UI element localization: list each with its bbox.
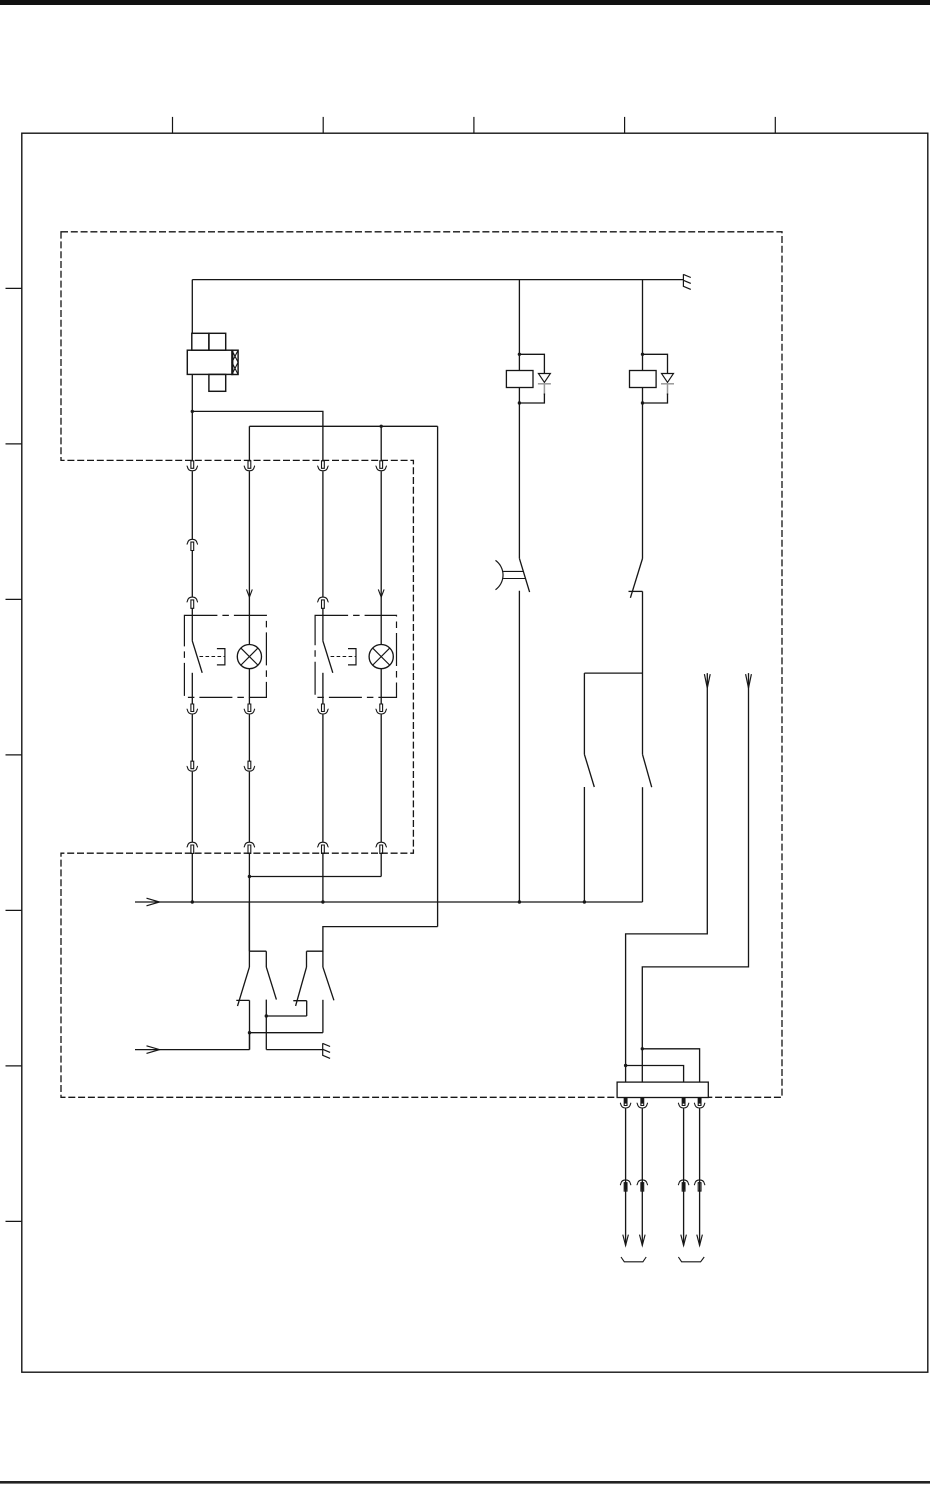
- node: lower bus tap on main bus: [322, 926, 324, 928]
- connector C6-3 (lower boundary, wire 3): [317, 842, 328, 853]
- destination bracket (pair 3-4): [678, 1257, 704, 1262]
- wire: SW-A to main bus: [583, 787, 585, 902]
- dimmer switch: left rocker bar: [249, 902, 266, 967]
- connector pin C1-3 (boundary, wire 3): [317, 461, 328, 471]
- bulb RH (lamp): [369, 645, 393, 669]
- wire 2: to lower boundary connector: [248, 772, 250, 843]
- wire: R1 diode branch (top): [519, 354, 544, 373]
- arrow: wire B direction: [746, 674, 752, 688]
- connector pin C5-2 (mid, wire 2): [244, 761, 255, 771]
- link bracket RH: [348, 649, 356, 665]
- wire 3: to lower boundary connector: [322, 715, 324, 843]
- wire: R2 diode branch (bottom): [643, 394, 668, 404]
- arrow: J1-1 lead end: [623, 1235, 629, 1246]
- wire 4: lamp to below-box connector: [380, 669, 382, 704]
- connector C6-2 (lower boundary, wire 2): [244, 842, 255, 853]
- wire 4: to lower boundary connector: [380, 715, 382, 843]
- wire 2: down to dimmer switch: [248, 853, 250, 951]
- node: wire 1 on main bus: [191, 900, 194, 903]
- wire: R1 contact to main bus: [518, 591, 520, 902]
- MAIN CIRCUIT: [184, 274, 690, 951]
- mechanical link RH (dashed): [331, 656, 357, 658]
- connector C6-4 (lower boundary, wire 4): [376, 842, 387, 853]
- wire 3: switch to below-box connector: [322, 673, 324, 704]
- wire 1: to main bus: [191, 853, 193, 902]
- wire B: branch to pin 4: [642, 1049, 699, 1082]
- connector pin J1-4: [694, 1098, 705, 1108]
- dimmer blade 3: [296, 967, 307, 1006]
- wire: R1 diode branch (bottom): [519, 394, 544, 404]
- relay R2 coil: [630, 371, 657, 388]
- wire: top feed bus: [192, 279, 683, 281]
- ground G1: [683, 274, 690, 289]
- wire 2: to mid connector: [248, 715, 250, 762]
- connector pin C1-1 (boundary, wire 1): [187, 461, 198, 471]
- node: R2 coil top: [641, 353, 644, 356]
- wire: J1-3 lead out: [683, 1109, 685, 1246]
- arrow: feed direction wire 2: [247, 589, 253, 597]
- wire: J1-2 lead out: [641, 1109, 643, 1246]
- connector pin C4-1 (below headlight LH): [187, 704, 198, 714]
- connector C3b (wire 3, above headlight RH): [317, 597, 328, 608]
- relay R1 coil: [506, 371, 533, 388]
- arrow: J1-3 lead end: [681, 1235, 687, 1246]
- ground G2: [323, 1043, 330, 1058]
- connector C6-1 (lower boundary, wire 1): [187, 842, 198, 853]
- wire: J1-4 lead out: [699, 1109, 701, 1246]
- wire: SW-B to main bus: [642, 787, 644, 902]
- arrow: J1-2 lead end: [640, 1235, 646, 1246]
- node: wire 4 tap: [380, 425, 383, 428]
- bulb LH (lamp): [237, 645, 261, 669]
- node: R1 on main bus: [518, 900, 521, 903]
- wire: bus to relay R1 coil: [518, 280, 520, 371]
- dimmer blade 2: [266, 967, 276, 1000]
- node: wire 3 on main bus: [321, 900, 324, 903]
- wire: tie bus wire2-wire4: [249, 876, 381, 878]
- destination bracket (pair 1-2): [621, 1257, 646, 1262]
- connector pin C1-2 (boundary, wire 2): [244, 461, 255, 471]
- node: contact1 junction: [248, 1031, 251, 1034]
- wire: contact1 to contact4 bar: [250, 1032, 323, 1034]
- wire 1: switch to below-box connector: [191, 673, 193, 704]
- relay R2 fixed contact: [629, 590, 643, 592]
- dimmer blade 4: [323, 967, 334, 1000]
- wire: J1-1 lead out: [625, 1109, 627, 1246]
- relay R1 contact actuator (arc): [496, 560, 504, 589]
- node: R1 coil bottom: [518, 401, 521, 404]
- wire: junction to wire 3: [192, 411, 323, 460]
- connector pin C5-1 (mid, wire 1): [187, 761, 198, 771]
- wire 2: lamp to below-box connector: [248, 669, 250, 704]
- wire 1: boundary to inline connector: [191, 471, 193, 539]
- arrow: feed direction wire 4: [378, 589, 384, 597]
- node: wire B split: [641, 1047, 644, 1050]
- wire 4: to tie bus: [380, 853, 382, 876]
- junction connector J1 (block): [617, 1082, 708, 1097]
- headlight RH unit (dash-dot box): [315, 615, 396, 697]
- connector C2 (inline, wire 1): [187, 539, 198, 550]
- wire 2: boundary to headlight LH lamp: [248, 471, 250, 644]
- link bracket LH: [217, 649, 225, 665]
- wire: bus to relay R2 coil: [642, 280, 644, 371]
- relay R2 contact (blade): [630, 559, 642, 598]
- wire 3: to main bus: [322, 853, 324, 902]
- wire 4: boundary to headlight RH lamp: [380, 471, 382, 644]
- arrow: J1-4 lead end: [697, 1235, 703, 1246]
- wire A: signal drop (left): [626, 673, 708, 1082]
- arrow: lower-left feed: [147, 1046, 160, 1054]
- mechanical link LH (dashed): [200, 656, 226, 658]
- connector C8-3 (inline): [678, 1180, 689, 1191]
- node: wire 2 / wire 4 tie: [248, 875, 251, 878]
- diode D1: [538, 374, 550, 383]
- dimmer fixed contact 3: [293, 1001, 306, 1016]
- connector pin C4-2 (below headlight LH): [244, 704, 255, 714]
- node: R2 coil bottom: [641, 401, 644, 404]
- wire: riser jog to lower bus: [307, 927, 438, 952]
- node: wire A split: [624, 1064, 627, 1067]
- wire 3: boundary to headlight RH connector: [322, 471, 324, 597]
- wire: left twin switch riser: [583, 673, 585, 754]
- connector pin C1-4 (boundary, wire 4): [376, 461, 387, 471]
- headlight LH unit (dash-dot box): [184, 615, 266, 697]
- wire 1: inline connector to headlight LH connector: [191, 550, 193, 597]
- relay R1 contact (blade): [519, 558, 529, 592]
- dimmer blade 1: [238, 967, 250, 1006]
- connector C3 (wire 1, above headlight LH): [187, 597, 198, 608]
- wire: twin switch feed bar: [584, 672, 642, 674]
- node: contact2 tie: [265, 1014, 268, 1017]
- dimmer fixed contact 4: [322, 1000, 324, 1033]
- connector C8-1 (inline): [620, 1180, 631, 1191]
- wire: R2 diode branch (top): [643, 354, 668, 373]
- retract switch S-LH (blade): [192, 641, 202, 673]
- wire 1: fusible link to boundary connector: [191, 374, 193, 460]
- wire: bus to fusible link: [191, 280, 193, 334]
- diode D2: [662, 374, 674, 383]
- wire: R2 contact down to twin switches: [642, 591, 644, 754]
- retract switch S-RH (blade): [323, 641, 333, 673]
- wire B: signal drop (right): [642, 673, 748, 1082]
- connector pin J1-1: [620, 1098, 631, 1108]
- wire 1: to mid connector: [191, 715, 193, 762]
- wire: lamp feed bus (wire2 / wire4 / long riser): [249, 426, 437, 461]
- switch SW-A (blade): [584, 754, 594, 787]
- wire: long riser to lower bus: [437, 426, 439, 926]
- wire: R1 coil to contact: [518, 388, 520, 559]
- wire: main bus: [135, 901, 643, 903]
- dimmer fixed contact 2: [265, 1000, 267, 1050]
- dimmer fixed contact 1: [236, 1000, 249, 1049]
- wire A: branch to pin 3: [626, 1066, 684, 1083]
- connector pin C7-1 (below headlight RH): [317, 704, 328, 714]
- relay R1 actuator links: [503, 571, 525, 578]
- wire: R2 coil to contact: [642, 388, 644, 559]
- connector pin stubs J1 (solid): [626, 1098, 700, 1103]
- connector pin J1-3: [678, 1098, 689, 1108]
- connector C8-2 (inline): [637, 1180, 648, 1191]
- wire 1: into headlight LH: [191, 608, 193, 641]
- wire: lower-left feed to contact1: [135, 1033, 250, 1050]
- node: fuse output junction: [191, 410, 194, 413]
- arrow: main bus feed: [147, 898, 160, 906]
- wire: contact2 to contact3: [266, 1015, 306, 1017]
- connector pin J1-2: [637, 1098, 648, 1108]
- arrow: wire A direction: [704, 674, 710, 688]
- wire 1: to lower boundary connector: [191, 772, 193, 843]
- connector pin stubs C8 (solid): [626, 1182, 684, 1189]
- wire: contact2 to ground G2: [266, 1049, 322, 1051]
- node: R1 coil top: [518, 353, 521, 356]
- switch SW-B (blade): [643, 754, 652, 787]
- node: SW-A on main bus: [583, 900, 586, 903]
- harness / junction-block boundary (dashed outline with notch): [61, 232, 782, 1098]
- fusible link FL (block): [187, 333, 238, 391]
- dimmer switch: right rocker bar: [307, 951, 323, 967]
- connector pin C7-2 (below headlight RH): [376, 704, 387, 714]
- wire 3: into headlight RH: [322, 608, 324, 641]
- connector C8-4 (inline): [694, 1180, 705, 1191]
